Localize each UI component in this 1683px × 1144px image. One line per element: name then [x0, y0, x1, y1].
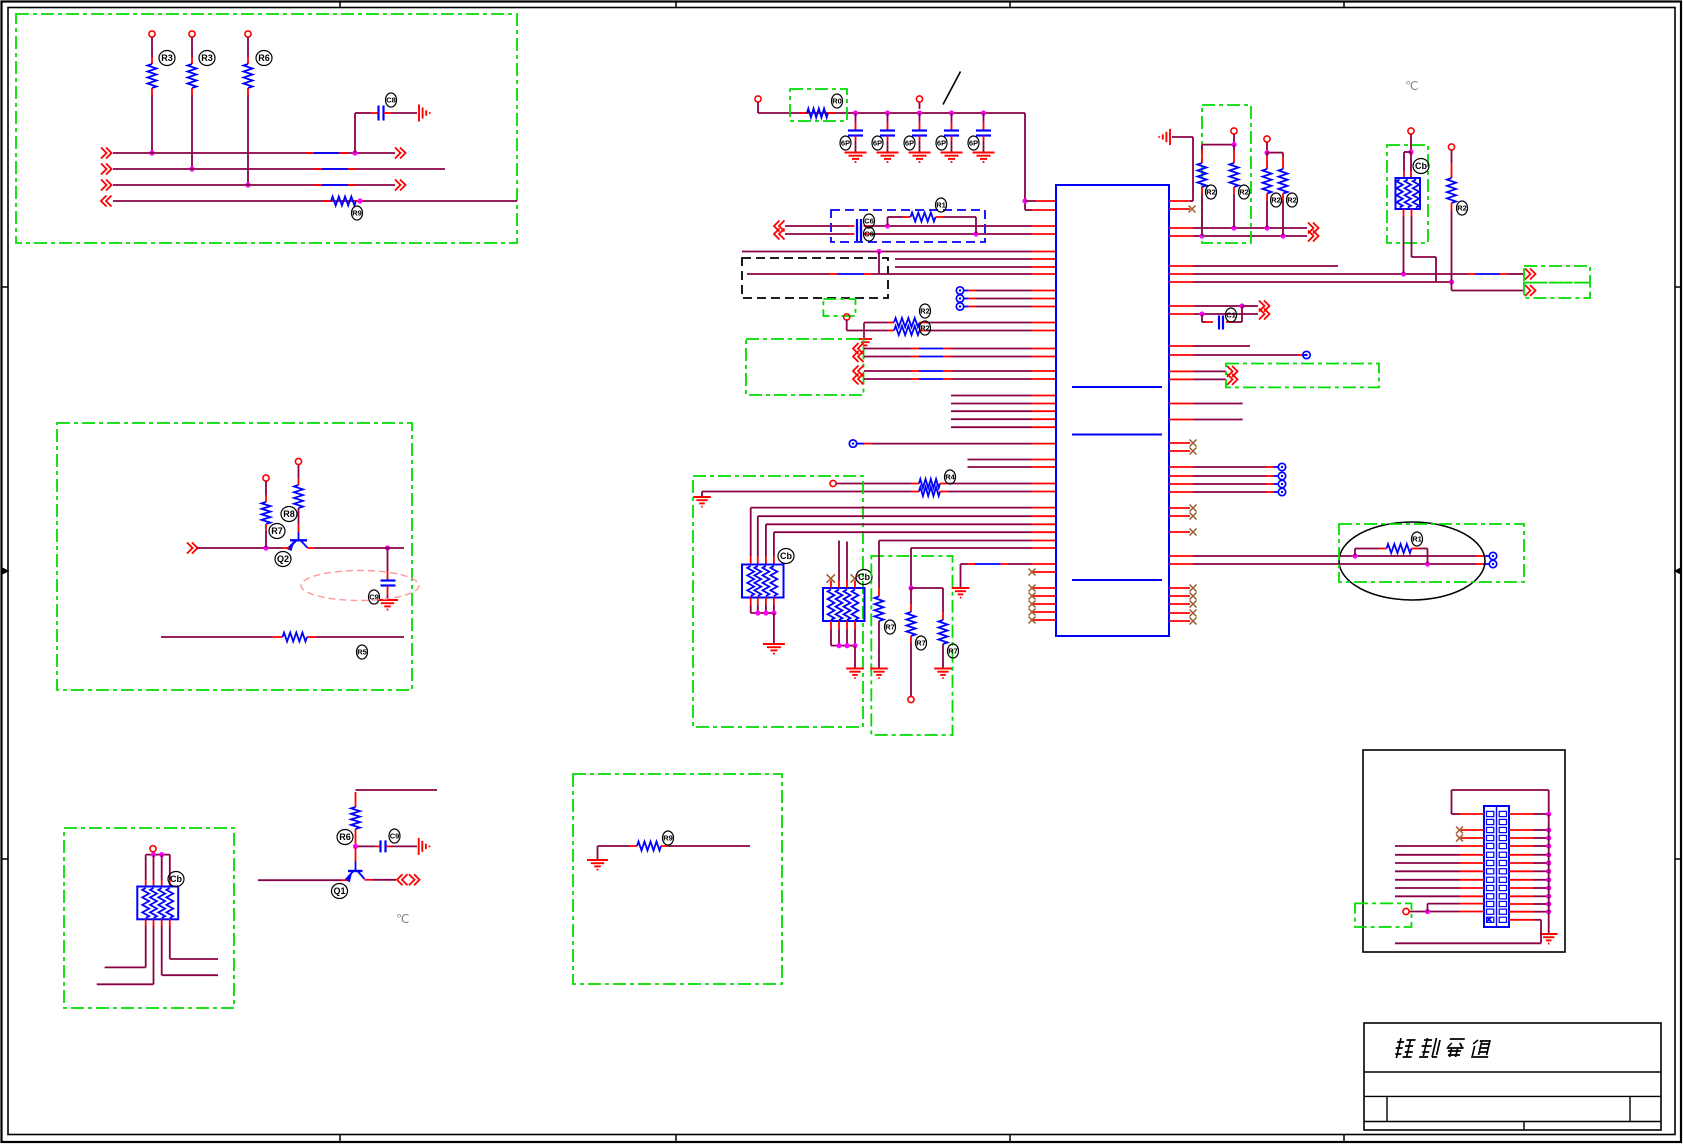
svg-text:R2: R2	[1457, 204, 1467, 213]
svg-text:R6: R6	[258, 53, 270, 63]
svg-text:6P: 6P	[873, 139, 882, 148]
svg-text:R2: R2	[1271, 196, 1281, 205]
svg-text:R9: R9	[352, 209, 362, 218]
svg-text:R7: R7	[948, 647, 958, 656]
svg-text:6P: 6P	[905, 139, 914, 148]
svg-text:R3: R3	[161, 53, 173, 63]
svg-text:C9: C9	[390, 832, 400, 841]
svg-text:Q1: Q1	[333, 886, 345, 896]
svg-text:Cb: Cb	[1415, 161, 1427, 171]
svg-text:R7: R7	[271, 526, 283, 536]
svg-text:Cb: Cb	[780, 551, 792, 561]
svg-text:℃: ℃	[396, 912, 409, 926]
svg-text:R1: R1	[936, 201, 946, 210]
svg-text:R1: R1	[1412, 535, 1422, 544]
svg-text:R2: R2	[1239, 188, 1249, 197]
svg-text:Q2: Q2	[277, 554, 289, 564]
svg-text:6P: 6P	[969, 139, 978, 148]
svg-text:R7: R7	[916, 639, 926, 648]
svg-text:R9: R9	[663, 834, 673, 843]
svg-text:R8: R8	[283, 509, 295, 519]
svg-text:C6: C6	[864, 217, 874, 226]
svg-text:R2: R2	[920, 324, 930, 333]
svg-text:R6: R6	[339, 832, 351, 842]
svg-text:R4: R4	[945, 473, 955, 482]
svg-text:Cb: Cb	[170, 874, 182, 884]
svg-text:Cb: Cb	[858, 572, 870, 582]
svg-text:R7: R7	[885, 623, 895, 632]
svg-text:R2: R2	[920, 307, 930, 316]
svg-text:C8: C8	[386, 96, 396, 105]
svg-text:R2: R2	[1206, 188, 1216, 197]
svg-text:6P: 6P	[841, 139, 850, 148]
svg-text:C6: C6	[864, 230, 874, 239]
svg-text:R0: R0	[832, 97, 842, 106]
svg-text:6P: 6P	[937, 139, 946, 148]
svg-text:R5: R5	[357, 648, 367, 657]
svg-text:R2: R2	[1287, 196, 1297, 205]
svg-text:C1: C1	[1226, 311, 1236, 320]
svg-text:R3: R3	[201, 53, 213, 63]
svg-text:℃: ℃	[1405, 79, 1418, 93]
